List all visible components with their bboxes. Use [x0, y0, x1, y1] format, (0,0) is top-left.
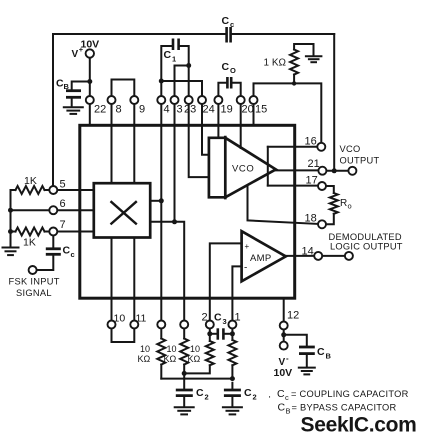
pin 3 [171, 96, 183, 222]
capacitor C2 #2 [224, 383, 257, 406]
svg-text:SIGNAL: SIGNAL [16, 288, 52, 298]
svg-text:1 KΩ: 1 KΩ [264, 58, 287, 69]
resistor 10K #1 [138, 329, 166, 379]
wire: V+ down to pin 22 [89, 58, 91, 96]
svg-text:KΩ: KΩ [188, 354, 201, 364]
resistor Ro [326, 186, 351, 224]
wire: AMP + input from pin 2 [210, 243, 242, 320]
pin terminal (timing) col 4 [157, 321, 165, 329]
pin 23 [184, 96, 209, 177]
svg-text:C: C [244, 387, 252, 399]
wire: branch junction to pin 24 [161, 81, 202, 96]
svg-text:4: 4 [164, 104, 170, 116]
svg-text:-: - [286, 354, 289, 363]
svg-text:15: 15 [255, 104, 267, 116]
wire: top feedback rail left segment [53, 33, 225, 35]
pin 6 [11, 198, 94, 214]
pin 5 [49, 179, 94, 195]
node: 1K / left rail [8, 229, 13, 234]
svg-text:V: V [72, 49, 79, 60]
capacitor CO [222, 61, 237, 89]
pin 10 [108, 238, 126, 329]
svg-text:2: 2 [205, 393, 209, 402]
svg-text:3: 3 [223, 317, 227, 326]
node: bus / pin1 branch [230, 376, 235, 381]
svg-text:16: 16 [305, 136, 317, 148]
capacitor C1 [164, 39, 179, 64]
svg-text:11: 11 [136, 313, 147, 325]
text: VCO OUTPUT [340, 144, 380, 166]
svg-text:10: 10 [190, 344, 200, 354]
node: 1K resistor tap [292, 81, 296, 85]
ground: left rail [3, 248, 19, 256]
wire: left input rail [10, 190, 12, 247]
node: pin1 / C3 [230, 331, 235, 336]
supply terminal V+ 10V [72, 39, 100, 61]
wire: X output to pin 4 line [150, 200, 161, 202]
svg-text:+: + [79, 45, 84, 54]
wire: X output 2 to pin 3 line and down [150, 222, 184, 320]
svg-text:AMP: AMP [250, 253, 272, 264]
svg-text:KΩ: KΩ [138, 354, 151, 364]
svg-text:VCO: VCO [340, 144, 361, 154]
capacitor Cc top coupling [222, 15, 235, 43]
svg-text:9: 9 [139, 104, 145, 116]
pin 14 demodulated output [284, 246, 353, 260]
svg-text:1K: 1K [24, 175, 37, 187]
svg-text:.: . [268, 389, 271, 401]
pin 8 [108, 96, 122, 183]
svg-text:C: C [164, 49, 172, 61]
pin 16 [268, 136, 326, 151]
pin 7 [49, 219, 94, 236]
svg-text:20: 20 [242, 104, 254, 116]
svg-text:C: C [222, 61, 230, 73]
pin 24 [198, 96, 215, 155]
svg-text:C: C [214, 312, 222, 324]
capacitor C3 [210, 312, 233, 340]
capacitor Cc input coupling [37, 236, 75, 270]
node: X out / pin 3 [172, 219, 177, 224]
wire: branch junction to pin 3 [175, 66, 189, 96]
multiplier phase-detector block [94, 183, 150, 237]
IC outline [80, 125, 295, 298]
capacitor C2 #1 [176, 379, 209, 406]
text: legend [268, 388, 409, 416]
capacitor CB top bypass [56, 78, 90, 107]
text: DEMODULATED LOGIC OUTPUT [329, 232, 403, 252]
node: feedback junction on pin 21 [332, 168, 337, 173]
svg-text:R: R [340, 198, 347, 209]
svg-text:C: C [222, 15, 230, 27]
wire: pin 15 up and right to pin 16 drop [254, 83, 322, 142]
pin 9 [130, 96, 145, 183]
svg-text:6: 6 [60, 198, 66, 210]
node: C1 left junction [159, 79, 164, 84]
svg-text:DEMODULATED: DEMODULATED [329, 232, 402, 242]
wire: C1 right lead down to pin 23 [180, 46, 189, 96]
resistor 10K #3 [184, 329, 214, 374]
svg-text:22: 22 [94, 104, 106, 116]
svg-text:O: O [230, 66, 236, 75]
svg-text:c: c [71, 250, 75, 259]
svg-text:19: 19 [221, 104, 233, 116]
svg-text:2: 2 [202, 312, 208, 324]
svg-text:10: 10 [167, 344, 177, 354]
pin 21 output [275, 158, 357, 175]
ground: C2 #2 [223, 407, 242, 414]
terminal: FSK input [29, 266, 37, 274]
wire: AMP - input from pin 1 [232, 266, 241, 320]
ground: C2 #1 [175, 407, 194, 414]
resistor pin1 branch [228, 329, 236, 379]
VCO block U1 [209, 136, 276, 200]
pin 4 [157, 96, 169, 320]
resistor 1 Kohm top right [264, 44, 314, 83]
svg-text:B: B [286, 407, 291, 416]
svg-text:21: 21 [308, 158, 320, 170]
wire: C1 left lead down to pin 4 [161, 46, 171, 96]
svg-text:10: 10 [114, 313, 126, 325]
node: pin6 / left rail [8, 208, 13, 213]
ground: CB bottom [299, 368, 315, 375]
svg-text:1: 1 [172, 55, 176, 64]
node: pin12 / CB junction [281, 332, 286, 337]
svg-text:C: C [278, 402, 286, 414]
text: FSK INPUT SIGNAL [9, 277, 60, 299]
svg-text:-: - [244, 263, 247, 274]
svg-text:o: o [348, 202, 352, 211]
resistor 1K upper left [11, 175, 50, 194]
op-amp AMP [242, 231, 286, 281]
svg-text:2: 2 [253, 393, 257, 402]
svg-text:C: C [277, 388, 285, 400]
node: col5/col4 lower junction [182, 371, 187, 376]
wire: VCO internal connector 16-17 [267, 147, 269, 186]
wire: right feedback drop to pin 21 line [333, 34, 335, 171]
wire: bridge pins 8-9 above [112, 80, 135, 96]
svg-text:C: C [196, 387, 204, 399]
ground: top right [306, 56, 322, 62]
svg-text:FSK INPUT: FSK INPUT [9, 277, 60, 287]
svg-text:SeekIC.com: SeekIC.com [301, 414, 417, 437]
wire: bridge pins 10-11 below [112, 329, 135, 342]
svg-text:B: B [64, 82, 70, 91]
wire: CO right lead to pin 20 [233, 83, 241, 96]
pin 2 [202, 312, 214, 329]
svg-text:14: 14 [302, 246, 314, 258]
pin terminal col 5 [180, 321, 188, 329]
wire: left frame drop to pin 5 [52, 34, 54, 186]
svg-text:c: c [230, 20, 234, 29]
svg-text:C: C [317, 346, 325, 358]
svg-text:+: + [245, 242, 250, 251]
svg-text:3: 3 [177, 104, 183, 116]
pin 12 [280, 299, 300, 342]
wire: bottom bus [161, 378, 232, 380]
wire: CO left lead to pin 19 [218, 83, 226, 96]
svg-text:23: 23 [184, 104, 196, 116]
svg-text:KΩ: KΩ [164, 354, 177, 364]
pin 18 [248, 187, 327, 229]
capacitor CB bottom bypass [284, 335, 332, 366]
svg-text:B: B [326, 352, 332, 361]
node: X out / pin 4 [159, 198, 164, 203]
svg-text:24: 24 [203, 104, 215, 116]
terminal: V- supply [274, 342, 293, 379]
pin 1 [228, 312, 240, 329]
svg-text:7: 7 [60, 219, 66, 231]
svg-text:OUTPUT: OUTPUT [340, 156, 380, 166]
node: pin2 / C3 [207, 331, 212, 336]
pin 15 [250, 96, 268, 124]
pin 20 [237, 96, 254, 148]
svg-text:C: C [63, 245, 71, 257]
svg-text:17: 17 [306, 175, 318, 187]
resistor 10K #2 [164, 329, 189, 379]
resistor 1K lower left [11, 228, 50, 249]
pin 19 [214, 96, 232, 138]
svg-text:8: 8 [116, 104, 122, 116]
svg-text:LOGIC OUTPUT: LOGIC OUTPUT [330, 242, 403, 252]
svg-text:10V: 10V [274, 367, 293, 379]
svg-text:12: 12 [287, 310, 299, 322]
pin 17 [268, 175, 326, 191]
node: C1 right junction [186, 63, 191, 68]
wire: top feedback rail right segment [233, 33, 335, 35]
ground: top left below CB [64, 107, 83, 114]
pin 11 [130, 238, 146, 329]
svg-text:1: 1 [235, 312, 241, 324]
svg-text:VCO: VCO [232, 164, 254, 175]
svg-text:c: c [285, 393, 289, 402]
node: V+/CB junction [87, 79, 92, 84]
svg-text:1K: 1K [23, 237, 36, 249]
svg-text:10: 10 [140, 344, 150, 354]
svg-text:= BYPASS CAPACITOR: = BYPASS CAPACITOR [292, 403, 397, 413]
svg-text:= COUPLING CAPACITOR: = COUPLING CAPACITOR [291, 389, 409, 399]
svg-text:5: 5 [60, 179, 66, 191]
pin 22 [86, 96, 106, 124]
